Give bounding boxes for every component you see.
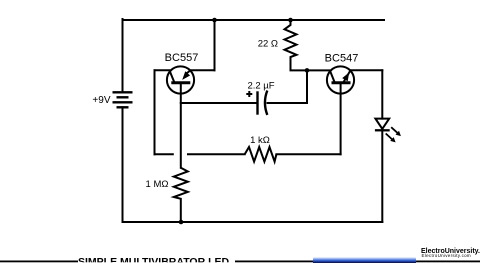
resistor R1 22 ohm (vertical) <box>285 20 297 70</box>
svg-text:SIMPLE MULTIVIBRATOR LED: SIMPLE MULTIVIBRATOR LED <box>78 256 229 263</box>
resistor R3 1 Mohm (vertical) <box>174 168 188 222</box>
resistor R2 1 kohm (horizontal) <box>245 147 277 162</box>
svg-text:1 kΩ: 1 kΩ <box>250 135 270 146</box>
wire: capacitor left lead <box>181 102 257 104</box>
wire: left rail upper (battery top lead) <box>122 19 124 92</box>
svg-text:+9V: +9V <box>92 95 110 106</box>
LED emission arrow 2 <box>391 127 398 133</box>
wire: BC557 collector stub <box>155 69 170 71</box>
wire: 1k ohm wire middle segment (after crossover gap) <box>188 153 245 155</box>
wire: LED cathode drop <box>381 130 383 222</box>
wire: BC547 base riser <box>340 84 342 154</box>
bottom black rule middle <box>235 261 314 263</box>
wire: top +9V rail <box>123 19 385 21</box>
wire: 1k ohm wire left segment <box>155 153 173 155</box>
wire: BC557 emitter stub <box>191 69 215 71</box>
node: dot 22 ohm bottom / capacitor / BC547 collector <box>305 68 310 73</box>
transistor Q1 BC557 (PNP) <box>167 66 194 93</box>
wire: BC557 emitter riser to rail <box>214 20 216 70</box>
node: dot 1M ohm / bottom rail <box>179 220 184 225</box>
svg-text:22 Ω: 22 Ω <box>258 39 278 50</box>
wire: capacitor right lead <box>268 102 308 104</box>
wire: BC557 base drop <box>180 84 182 167</box>
bottom black rule right <box>416 261 480 263</box>
wire: LED anode drop <box>381 70 383 118</box>
wire: capacitor riser to node <box>306 70 308 103</box>
label + polarity <box>246 91 252 97</box>
wire: 1k ohm wire right segment <box>276 153 340 155</box>
wire: left rail lower (battery bottom lead) <box>122 107 124 222</box>
capacitor C1 2.2uF (polarized) <box>258 91 268 115</box>
svg-text:ElectroUniversity.com: ElectroUniversity.com <box>422 253 471 258</box>
battery B1 <box>113 92 133 107</box>
node: dot rail / 22 ohm top <box>288 18 293 23</box>
node: dot rail / BC557 emitter <box>212 18 217 23</box>
blue progress bar <box>313 257 416 263</box>
svg-text:2.2 µF: 2.2 µF <box>247 81 274 92</box>
wire: bottom rail <box>123 221 383 223</box>
wire: BC557 collector drop <box>154 70 156 154</box>
wire: 22 ohm bottom to BC547 collector <box>291 69 331 71</box>
wire: BC547 emitter stub <box>350 69 382 71</box>
svg-text:BC547: BC547 <box>325 53 359 65</box>
LED emission arrow 1 <box>386 134 393 140</box>
svg-text:1 MΩ: 1 MΩ <box>146 179 169 190</box>
svg-text:BC557: BC557 <box>165 52 199 64</box>
diode D1 LED <box>375 119 401 143</box>
bottom black rule left <box>0 261 78 263</box>
transistor Q2 BC547 (NPN) <box>327 66 354 93</box>
